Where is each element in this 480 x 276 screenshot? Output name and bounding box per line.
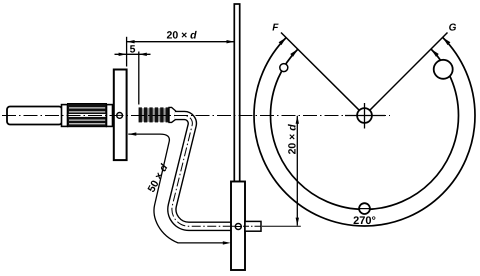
crank tube centerline bbox=[172, 115, 232, 226]
bellows segment bbox=[139, 107, 169, 122]
leader 50xd bbox=[128, 134, 223, 243]
arc arrowheads bbox=[290, 49, 298, 57]
bottom hole on arc bbox=[359, 203, 370, 214]
flange plate bbox=[114, 70, 127, 161]
outer dial arc bbox=[254, 37, 475, 226]
collar right of grip bbox=[107, 105, 113, 127]
collar left of grip bbox=[62, 105, 68, 127]
vertical dimension 20xd bbox=[296, 116, 298, 226]
svg-text:270°: 270° bbox=[353, 215, 376, 227]
radial line F bbox=[281, 33, 359, 111]
radial line G bbox=[370, 33, 448, 111]
svg-text:F: F bbox=[272, 22, 279, 33]
hole in body bbox=[235, 224, 241, 230]
bellows end cap bbox=[169, 107, 176, 122]
svg-text:5: 5 bbox=[130, 44, 136, 56]
svg-text:G: G bbox=[449, 22, 457, 33]
svg-text:20 × d: 20 × d bbox=[287, 124, 299, 155]
extension line A bbox=[126, 37, 128, 67]
dimension 5 line bbox=[115, 53, 151, 55]
side stub pin bbox=[245, 221, 261, 231]
big hole near G bbox=[434, 60, 453, 79]
small hole near F bbox=[280, 64, 288, 72]
dial center circle bbox=[357, 108, 372, 123]
inner dial arc bbox=[271, 49, 459, 209]
dimension 20xd line bbox=[127, 41, 235, 43]
knurled grip bbox=[68, 104, 107, 127]
rod lower body bbox=[231, 182, 245, 271]
vertical rod bbox=[234, 4, 239, 182]
extension line B bbox=[138, 52, 140, 105]
flange hole bbox=[117, 113, 123, 119]
crank tube bbox=[172, 115, 232, 226]
dial crosshair vertical bbox=[364, 103, 366, 129]
body axis line bbox=[232, 225, 263, 227]
dial crosshair horizontal bbox=[345, 115, 385, 117]
handle shaft bbox=[7, 107, 62, 125]
main center axis bbox=[2, 115, 390, 117]
svg-text:20 × d: 20 × d bbox=[167, 30, 198, 42]
